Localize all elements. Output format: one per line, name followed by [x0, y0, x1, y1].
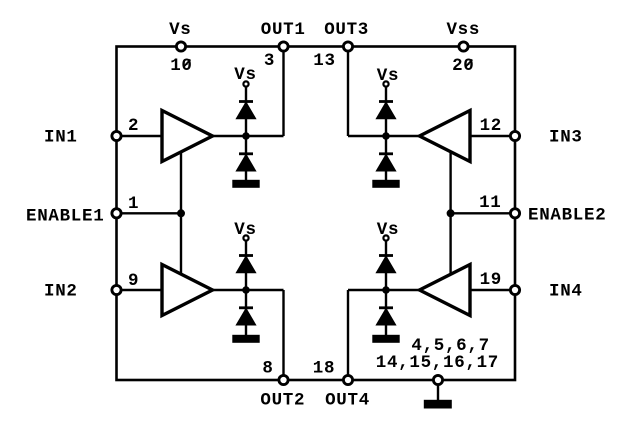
svg-text:8: 8	[262, 359, 273, 379]
svg-text:IN4: IN4	[549, 281, 583, 301]
wire OUT4 horizontal to A4 output	[348, 289, 421, 291]
svg-text:Vss: Vss	[446, 20, 480, 40]
diode D2	[238, 156, 255, 171]
pin 1 ENABLE1 circle	[112, 209, 121, 218]
svg-text:11: 11	[479, 193, 501, 213]
wire clamp chain upper-left	[245, 87, 247, 182]
wire ENABLE1 stub to A1 and A2	[180, 151, 182, 276]
svg-text:19: 19	[480, 270, 502, 290]
pin 18 OUT4 circle	[343, 375, 352, 384]
wire IN1 to buffer A1	[118, 135, 163, 137]
svg-text:ENABLE2: ENABLE2	[528, 206, 606, 226]
pin 10 Vs circle	[176, 42, 185, 51]
svg-text:Vs: Vs	[377, 66, 399, 86]
diode D5	[238, 258, 255, 273]
diode D6 cathode bar	[239, 306, 253, 309]
pin 3 OUT1 circle	[279, 42, 288, 51]
wire OUT4 vertical	[347, 290, 349, 380]
svg-text:12: 12	[480, 116, 502, 136]
svg-text:IN1: IN1	[44, 127, 78, 147]
junction OUT2 clamp node	[242, 286, 250, 294]
pin 8 OUT2 circle	[279, 375, 288, 384]
ground lower-left clamp	[234, 336, 259, 342]
diode D8	[378, 310, 395, 325]
buffer A4	[420, 265, 471, 316]
wire OUT2 vertical	[282, 290, 284, 380]
pin 2 IN1 circle	[112, 131, 121, 140]
buffer A3	[420, 111, 471, 162]
svg-text:3: 3	[264, 51, 275, 71]
wire OUT2 horizontal to A2 output	[211, 289, 284, 291]
wire IN4 to buffer A4	[469, 289, 513, 291]
pin 19 IN4 circle	[510, 285, 519, 294]
junction ENABLE1 node	[177, 209, 185, 217]
diode D2 cathode bar	[239, 152, 253, 155]
wire OUT3 horizontal to A3 output	[348, 135, 421, 137]
diode D4	[378, 156, 395, 171]
buffer A2	[162, 265, 213, 316]
wire clamp chain lower-left	[245, 241, 247, 337]
ground upper-left clamp	[234, 181, 259, 187]
diode D3 cathode bar	[379, 100, 393, 103]
svg-text:13: 13	[313, 51, 335, 71]
Vs terminal circle lower-right clamp	[383, 235, 388, 240]
diode D6	[238, 310, 255, 325]
pin GND circle	[433, 375, 442, 384]
svg-text:OUT2: OUT2	[260, 391, 305, 411]
diode D1 cathode bar	[239, 100, 253, 103]
svg-text:OUT4: OUT4	[325, 391, 370, 411]
diode D5 cathode bar	[239, 254, 253, 257]
svg-text:ENABLE1: ENABLE1	[26, 207, 104, 227]
junction ENABLE2 node	[447, 209, 455, 217]
wire ground pin stem	[437, 384, 439, 402]
pin 20 Vss circle	[459, 42, 468, 51]
junction OUT1 clamp node	[242, 132, 250, 140]
svg-text:9: 9	[128, 271, 139, 291]
diode D7 cathode bar	[379, 254, 393, 257]
diode D3	[378, 104, 395, 119]
pin 11 ENABLE2 circle	[510, 209, 519, 218]
buffer A1	[162, 111, 213, 162]
diode D7	[378, 258, 395, 273]
Vs terminal circle upper-left clamp	[243, 81, 248, 86]
svg-text:20: 20	[452, 56, 474, 76]
wire clamp chain lower-right	[385, 241, 387, 337]
svg-text:2: 2	[128, 116, 139, 136]
wire ENABLE1	[118, 212, 181, 214]
svg-text:Vs: Vs	[234, 220, 256, 240]
wire ENABLE2	[451, 212, 513, 214]
wire OUT1 vertical	[282, 47, 284, 137]
Vs terminal circle lower-left clamp	[243, 235, 248, 240]
diode D8 cathode bar	[379, 306, 393, 309]
diode D1	[238, 104, 255, 119]
ground pin symbol	[425, 401, 451, 407]
wire OUT3 vertical	[347, 47, 349, 137]
svg-text:14,15,16,17: 14,15,16,17	[376, 353, 499, 373]
junction OUT3 clamp node	[382, 132, 390, 140]
pin 13 OUT3 circle	[343, 42, 352, 51]
package outline rectangle	[117, 47, 516, 381]
junction OUT4 clamp node	[382, 286, 390, 294]
svg-text:1: 1	[128, 194, 139, 214]
wire ENABLE2 stub to A3 and A4	[449, 151, 451, 276]
svg-text:IN3: IN3	[549, 127, 583, 147]
pin 12 IN3 circle	[510, 131, 519, 140]
diode D4 cathode bar	[379, 152, 393, 155]
svg-text:IN2: IN2	[44, 281, 78, 301]
ground upper-right clamp	[374, 181, 399, 187]
svg-text:Vs: Vs	[234, 65, 256, 85]
pin 9 IN2 circle	[112, 285, 121, 294]
svg-text:10: 10	[170, 56, 192, 76]
wire IN2 to buffer A2	[118, 289, 163, 291]
svg-text:Vs: Vs	[169, 20, 191, 40]
ground lower-right clamp	[374, 336, 399, 342]
wire clamp chain upper-right	[385, 87, 387, 182]
svg-text:18: 18	[313, 359, 335, 379]
svg-text:OUT3: OUT3	[324, 20, 369, 40]
wire OUT1 horizontal to A1 output	[211, 135, 284, 137]
Vs terminal circle upper-right clamp	[383, 81, 388, 86]
svg-text:Vs: Vs	[377, 220, 399, 240]
wire IN3 to buffer A3	[469, 135, 513, 137]
svg-text:OUT1: OUT1	[261, 20, 306, 40]
